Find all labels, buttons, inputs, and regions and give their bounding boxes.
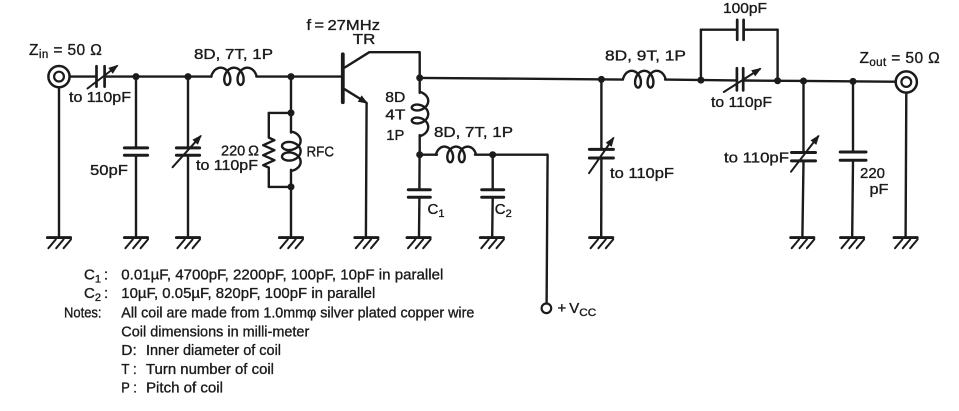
wire node H to Vcc feed	[493, 155, 548, 304]
svg-text:to 110pF: to 110pF	[711, 94, 772, 111]
svg-text:Coil dimensions in milli-meter: Coil dimensions in milli-meter	[121, 323, 309, 340]
wire node A down to 50pF cap	[135, 77, 137, 147]
svg-text:to 110pF: to 110pF	[724, 149, 789, 166]
wire bottom of resistor branch	[269, 186, 291, 188]
wire node I down to CV3	[600, 79, 602, 147]
svg-text:220 Ω: 220 Ω	[221, 142, 259, 159]
wire node B down to CV2	[187, 77, 189, 147]
svg-text:All coil are made from 1.0mmφ: All coil are made from 1.0mmφ silver pla…	[121, 305, 474, 322]
wire node L down to CV5	[802, 81, 804, 151]
ground (C1)	[407, 238, 431, 249]
svg-text:C2 :: C2 :	[84, 285, 108, 304]
node M junction	[850, 78, 857, 85]
svg-text:D:: D:	[121, 342, 137, 359]
variable capacitor CV2 (shunt, to 110pF)	[173, 135, 202, 167]
wire 220pF to ground	[851, 162, 854, 237]
svg-text:to 110pF: to 110pF	[69, 89, 131, 106]
wire node C down	[290, 77, 292, 113]
svg-text:Inner diameter of coil: Inner diameter of coil	[146, 342, 281, 359]
node K junction (loop right)	[774, 77, 781, 84]
node H junction	[489, 151, 496, 158]
wire node G to C1	[418, 155, 421, 189]
inductor L1 (8D, 7T, 1P)	[211, 68, 256, 85]
ground (input connector)	[47, 238, 71, 249]
wire input connector to ground	[58, 87, 60, 236]
svg-text:8D, 7T, 1P: 8D, 7T, 1P	[434, 124, 513, 141]
node A junction	[133, 73, 140, 80]
wire CV1 to node A	[106, 75, 211, 77]
svg-text:to 110pF: to 110pF	[610, 165, 674, 182]
wire C1 to ground	[418, 199, 421, 237]
svg-text:RFC: RFC	[307, 144, 335, 161]
svg-text:0.01µF, 4700pF, 2200pF, 100pF,: 0.01µF, 4700pF, 2200pF, 100pF, 10pF in p…	[121, 267, 443, 284]
svg-text:Pitch of coil: Pitch of coil	[146, 379, 223, 396]
transistor TR (NPN)	[343, 52, 420, 104]
variable capacitor CV5 (to 110pF)	[791, 135, 820, 172]
connector J2 (output, Zout=50 ohm)	[896, 71, 917, 92]
svg-text:TR: TR	[353, 31, 376, 48]
ground (CV3)	[590, 238, 614, 249]
wire collector node to L4	[420, 78, 623, 80]
node I junction	[598, 76, 605, 83]
node F junction (collector)	[416, 74, 423, 81]
wire CV4 to node K	[745, 79, 804, 82]
svg-text:Zout = 50 Ω: Zout = 50 Ω	[860, 50, 941, 69]
node L junction	[800, 77, 807, 84]
wire node M down to 220pF	[852, 81, 854, 150]
svg-text:Turn number of coil: Turn number of coil	[146, 361, 274, 378]
ground (C2)	[480, 238, 504, 249]
svg-text:220: 220	[860, 165, 885, 182]
wire parallel loop right riser	[776, 30, 778, 81]
wire CV5 to ground	[802, 162, 803, 236]
ground (50pF)	[124, 238, 148, 249]
ground (CV5)	[791, 238, 815, 249]
connector J1 (input, Zin=50 ohm)	[48, 66, 69, 87]
svg-text:100pF: 100pF	[723, 0, 767, 17]
svg-text:1P: 1P	[386, 127, 404, 144]
svg-text:8D, 9T, 1P: 8D, 9T, 1P	[605, 47, 686, 64]
svg-text:pF: pF	[870, 181, 889, 198]
variable capacitor CV1 (series, to 110pF)	[88, 65, 119, 89]
node J junction	[697, 77, 704, 84]
wire parallel loop top right	[745, 29, 778, 31]
wire parallel loop left riser	[700, 30, 702, 80]
capacitor C2	[482, 155, 504, 198]
wire emitter to ground	[365, 104, 368, 236]
svg-text:Zin = 50 Ω: Zin = 50 Ω	[29, 42, 102, 61]
svg-text:8D: 8D	[385, 89, 405, 106]
inductor RFC	[282, 113, 301, 187]
inductor L4 (8D, 9T, 1P)	[623, 71, 666, 88]
wire L1 to transistor base	[256, 75, 341, 77]
terminal +Vcc	[542, 304, 552, 314]
capacitor 220pF	[840, 152, 866, 160]
node B junction	[185, 73, 192, 80]
node D junction (top of R-RFC pair)	[288, 109, 295, 116]
svg-text:P :: P :	[121, 379, 137, 396]
capacitor 50pF	[124, 148, 147, 155]
wire connector to C-series	[70, 75, 95, 77]
wire top of resistor branch	[269, 112, 291, 114]
ground (220pF)	[841, 238, 865, 249]
wire node L to node M	[804, 80, 895, 83]
ground (emitter)	[355, 238, 379, 249]
svg-text:+ VCC: + VCC	[558, 300, 597, 319]
ground (output connector)	[894, 238, 918, 249]
wire output connector to ground	[904, 93, 907, 236]
svg-text:C1: C1	[428, 201, 445, 220]
wire 50pF cap to ground	[135, 157, 137, 237]
wire node E to ground	[290, 187, 292, 236]
svg-text:T :: T :	[121, 361, 137, 378]
wire parallel loop top left	[701, 29, 736, 31]
node G junction	[416, 151, 423, 158]
svg-text:8D, 7T, 1P: 8D, 7T, 1P	[194, 46, 273, 63]
svg-text:10µF, 0.05µF, 820pF, 100pF in: 10µF, 0.05µF, 820pF, 100pF in parallel	[121, 285, 375, 302]
resistor R1 220 ohm	[263, 113, 274, 187]
ground (CV2)	[176, 238, 200, 249]
node C junction	[288, 73, 295, 80]
svg-text:Notes:: Notes:	[64, 305, 102, 322]
wire CV3 to ground	[600, 159, 603, 236]
capacitor 100pF	[737, 20, 743, 40]
ground (R-RFC branch)	[279, 238, 303, 249]
svg-text:C2: C2	[495, 201, 512, 220]
svg-text:4T: 4T	[385, 107, 405, 124]
capacitor C1	[408, 190, 430, 198]
wire C2 to ground	[491, 199, 494, 237]
inductor L2 (8D 4T 1P vertical)	[412, 78, 428, 155]
wire CV2 to ground	[187, 157, 189, 237]
inductor L3 (8D, 7T, 1P)	[420, 147, 493, 163]
wire L4 to node J	[665, 78, 736, 81]
node E junction (bottom of R-RFC pair)	[288, 183, 295, 190]
svg-text:to 110pF: to 110pF	[196, 157, 258, 174]
variable capacitor CV4 (to 110pF, series)	[724, 68, 762, 92]
svg-text:50pF: 50pF	[90, 162, 128, 179]
svg-text:C1 :: C1 :	[84, 267, 108, 286]
variable capacitor CV3 (to 110pF)	[589, 137, 614, 174]
